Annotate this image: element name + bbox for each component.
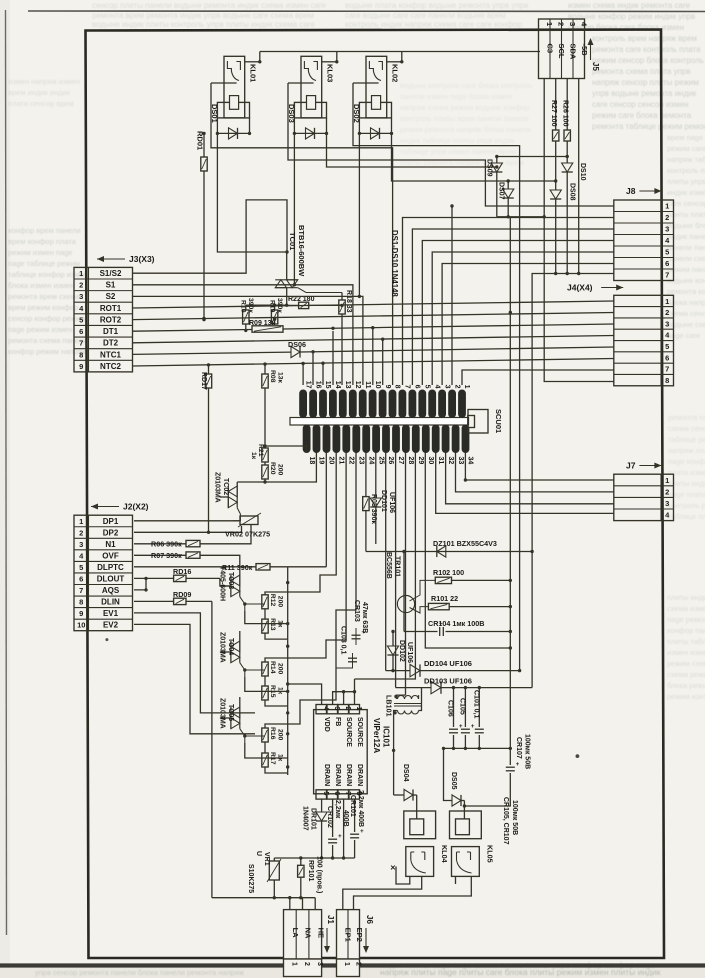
- wire pin32 to J7-3: [446, 453, 614, 504]
- wire pin14 up: [331, 327, 334, 385]
- svg-text:1: 1: [665, 476, 669, 485]
- svg-text:RD09: RD09: [173, 590, 191, 599]
- svg-text:2: 2: [453, 385, 460, 389]
- capacitor CR102 2.2uF 400V: [326, 799, 349, 858]
- svg-text:EP1: EP1: [343, 928, 352, 942]
- wire TC05 bottom: [245, 743, 288, 758]
- svg-text:47мк 63В: 47мк 63В: [361, 602, 368, 633]
- resistor R20 200: [262, 462, 284, 484]
- svg-text:RD17: RD17: [200, 372, 207, 390]
- wire KL05 contacts down: [354, 876, 472, 909]
- svg-text:DS05: DS05: [450, 772, 457, 790]
- svg-text:32: 32: [447, 457, 454, 465]
- diode DS08: [550, 183, 575, 275]
- connector J2(X2): [74, 502, 149, 631]
- svg-text:схема измен: схема измен: [667, 604, 705, 613]
- svg-text:DS08: DS08: [569, 183, 576, 201]
- svg-text:режим сенсор блока контроль: режим сенсор блока контроль: [592, 56, 704, 65]
- svg-text:индик измен: индик измен: [667, 188, 705, 197]
- wire J4-2 tap: [509, 312, 512, 314]
- wire pin15 up: [322, 363, 324, 385]
- svg-text:2,2мк 400В: 2,2мк 400В: [357, 790, 364, 827]
- svg-text:индик таблице плиты упрв индик: индик таблице плиты упрв индик: [400, 136, 515, 145]
- wire ROT2 to J4-2: [133, 313, 614, 321]
- wire IC101 pin2: [343, 692, 345, 705]
- svg-text:водыне контроль care блока кон: водыне контроль care блока контроль: [400, 81, 532, 90]
- svg-text:KL03: KL03: [326, 64, 335, 82]
- svg-text:5: 5: [665, 342, 669, 351]
- svg-text:водыне схема: водыне схема: [667, 320, 705, 329]
- svg-text:R101 22: R101 22: [431, 594, 458, 603]
- resistor RD01: [196, 131, 208, 321]
- svg-text:ремонта врем ремонта индик упр: ремонта врем ремонта индик упрв водыне c…: [92, 11, 314, 20]
- svg-text:10: 10: [374, 381, 381, 389]
- svg-text:NA: NA: [304, 928, 313, 939]
- svg-text:пage таблице режим: пage таблице режим: [8, 259, 80, 268]
- relay KL05: [450, 811, 495, 876]
- resistor R05 390K: [363, 453, 377, 552]
- resistor RD16: [134, 567, 231, 586]
- svg-text:SCU01: SCU01: [494, 409, 503, 433]
- svg-text:3: 3: [665, 499, 669, 508]
- svg-text:ROT2: ROT2: [100, 315, 122, 324]
- svg-text:DR101: DR101: [310, 808, 317, 830]
- svg-text:J5: J5: [591, 62, 600, 71]
- triac TC03 cluster: [219, 565, 288, 639]
- wire DP1 to TC02: [134, 520, 240, 522]
- svg-text:DZ101 BZX55C4V3: DZ101 BZX55C4V3: [433, 539, 497, 548]
- svg-text:ремонта care контроль плата: ремонта care контроль плата: [592, 45, 701, 54]
- svg-text:DT1: DT1: [103, 327, 119, 336]
- svg-text:19: 19: [318, 457, 325, 465]
- svg-text:схема сенсор: схема сенсор: [667, 309, 705, 318]
- wire pin26 down: [385, 453, 387, 671]
- resistor R18 33: [339, 290, 352, 385]
- svg-text:7: 7: [665, 365, 669, 374]
- resistor RD17: [200, 363, 212, 534]
- svg-text:KL04: KL04: [440, 845, 449, 863]
- resistor R08 13K: [262, 364, 284, 448]
- svg-text:1: 1: [290, 962, 297, 966]
- capacitor CR103 47uF: [352, 600, 369, 645]
- resistor R102 100: [433, 568, 512, 584]
- svg-text:10: 10: [77, 621, 85, 630]
- svg-text:DP2: DP2: [103, 528, 119, 537]
- svg-text:таблице конфор измен: таблице конфор измен: [8, 270, 88, 279]
- wire pin16 up: [312, 352, 314, 385]
- svg-text:DS1-DS10 1N4148: DS1-DS10 1N4148: [390, 230, 399, 297]
- wire caps bottom rail: [444, 747, 512, 750]
- svg-text:CR104 1мк 100В: CR104 1мк 100В: [428, 619, 484, 628]
- svg-text:5: 5: [665, 248, 669, 257]
- wire pin4 to J8-5: [432, 252, 614, 385]
- svg-text:8: 8: [665, 376, 669, 385]
- wire S1 to pin12: [133, 285, 353, 385]
- svg-text:режим ремонта напряж блока пан: режим ремонта напряж блока панели: [400, 125, 531, 134]
- wire KL04 contacts down: [343, 867, 422, 910]
- wire pin23 staircase: [265, 453, 356, 729]
- svg-text:TC03: TC03: [227, 572, 234, 589]
- resistor R26 100: [562, 79, 571, 164]
- wire R10 R19 top rail: [246, 304, 287, 307]
- wire EV1: [134, 613, 255, 713]
- svg-text:IC101: IC101: [382, 726, 391, 748]
- svg-text:врем индик индик: врем индик индик: [8, 88, 71, 97]
- svg-text:DRAIN: DRAIN: [334, 764, 341, 786]
- svg-text:5: 5: [322, 792, 329, 796]
- svg-text:14: 14: [334, 381, 341, 389]
- svg-text:6: 6: [414, 385, 421, 389]
- wire pin21 staircase: [265, 453, 336, 595]
- svg-text:3: 3: [665, 319, 669, 328]
- diode DS07: [498, 181, 514, 217]
- svg-text:100мк 50В: 100мк 50В: [524, 734, 531, 769]
- diode DZ101 BZX55C4V3: [433, 539, 497, 557]
- svg-text:TC05: TC05: [227, 704, 234, 721]
- svg-text:S10K275: S10K275: [247, 864, 254, 893]
- wire DT2 to J4-4: [133, 336, 614, 343]
- svg-text:VDD: VDD: [323, 717, 330, 732]
- svg-text:7: 7: [665, 271, 669, 280]
- wire pin9 up: [382, 339, 384, 385]
- svg-text:17: 17: [304, 381, 311, 389]
- svg-text:режим измен пage: режим измен пage: [8, 248, 72, 257]
- relay KL01: [210, 52, 261, 139]
- label SCU01: [494, 409, 503, 433]
- diode DD102: [387, 630, 413, 673]
- svg-text:3: 3: [333, 707, 340, 711]
- svg-text:S1/S2: S1/S2: [100, 269, 122, 278]
- svg-text:7: 7: [79, 586, 83, 595]
- svg-text:6: 6: [665, 259, 669, 268]
- svg-text:2: 2: [556, 22, 565, 26]
- connector J4(X4): [567, 283, 674, 386]
- page left edge line: [6, 10, 7, 935]
- diode DD101: [370, 453, 395, 545]
- svg-text:NTC2: NTC2: [100, 362, 121, 371]
- svg-text:пage ремонта: пage ремонта: [667, 615, 705, 624]
- svg-text:панели схема: панели схема: [667, 254, 705, 263]
- svg-text:C106: C106: [447, 700, 454, 717]
- svg-text:CR105, CR107: CR105, CR107: [502, 797, 509, 845]
- wire pin22 staircase: [265, 453, 346, 663]
- svg-text:DP1: DP1: [103, 517, 119, 526]
- wire KL02L down to S2: [358, 133, 361, 298]
- svg-text:TC02: TC02: [222, 478, 229, 495]
- svg-text:12: 12: [354, 381, 361, 389]
- svg-text:EV2: EV2: [103, 621, 119, 630]
- wire DLPTC to R11 to pin20: [134, 453, 326, 573]
- svg-text:режим схема: режим схема: [667, 659, 705, 668]
- connector J7: [614, 461, 674, 521]
- wire J1 LA up: [288, 896, 291, 910]
- svg-text:пage режим измен: пage режим измен: [8, 325, 72, 334]
- wire pin7 to J8-2: [403, 218, 614, 386]
- svg-text:R06 390к: R06 390к: [151, 540, 182, 549]
- wire TC01 gate to R18: [298, 288, 342, 293]
- svg-text:2: 2: [344, 707, 351, 711]
- page bottom black line: [0, 963, 705, 967]
- svg-text:6: 6: [665, 353, 669, 362]
- svg-text:+: +: [471, 724, 475, 730]
- svg-text:Z0103MA: Z0103MA: [219, 632, 226, 663]
- svg-text:2: 2: [665, 213, 669, 222]
- wire DS09-DS10 link: [495, 155, 569, 158]
- wire bottom rail: [212, 897, 315, 899]
- diode DS09: [486, 157, 503, 217]
- capacitor CR107 100uF 50V: [506, 734, 531, 798]
- svg-text:100 (пров.): 100 (пров.): [316, 856, 323, 893]
- wire common trunk 287.7: [286, 567, 289, 775]
- svg-text:200: 200: [277, 596, 284, 608]
- svg-text:контроль пage: контроль пage: [667, 166, 705, 175]
- transformer LB101: [385, 688, 422, 717]
- svg-text:EV1: EV1: [103, 609, 119, 618]
- svg-text:конфор панели: конфор панели: [667, 626, 705, 635]
- connector J1: [284, 910, 326, 977]
- svg-text:VR02 07K275: VR02 07K275: [225, 530, 270, 539]
- wire N1 to R06: [134, 524, 251, 549]
- wire relay common top: [260, 51, 540, 53]
- svg-text:C3: C3: [545, 44, 554, 54]
- wire pin6 to J8-3: [412, 229, 613, 385]
- wire KL01 contact to pin8: [211, 83, 393, 385]
- wire pin3 to J8-6: [442, 264, 614, 386]
- wire IC101 pin1: [354, 679, 356, 705]
- wire S1S2 to TC01 top: [133, 200, 288, 273]
- svg-text:врем конфор плата: врем конфор плата: [8, 237, 77, 246]
- svg-text:1: 1: [355, 707, 362, 711]
- diode DD103 UF106: [396, 677, 532, 694]
- svg-text:S2: S2: [106, 292, 116, 301]
- svg-text:N1: N1: [105, 540, 116, 549]
- svg-text:1: 1: [343, 962, 350, 966]
- diode DS10: [562, 163, 586, 275]
- svg-text:DS09: DS09: [486, 159, 493, 177]
- svg-text:1: 1: [79, 269, 83, 278]
- diode DD104 UF106: [386, 659, 522, 677]
- resistor RD09: [134, 590, 212, 605]
- svg-text:плиты индик: плиты индик: [667, 593, 705, 602]
- svg-text:11: 11: [364, 381, 371, 389]
- svg-text:1: 1: [79, 517, 83, 526]
- wire KL03R to DS09 line: [327, 133, 499, 168]
- svg-text:упрв сенсор ремонта панели бло: упрв сенсор ремонта панели блока панели …: [35, 968, 244, 977]
- svg-text:+: +: [516, 762, 520, 768]
- svg-text:CR101: CR101: [349, 795, 356, 817]
- svg-text:20: 20: [328, 457, 335, 465]
- svg-text:напряж сенсор плиты режим: напряж сенсор плиты режим: [592, 78, 699, 87]
- wire NTC2 to J4-6: [133, 359, 614, 367]
- svg-text:T405-600H: T405-600H: [219, 566, 226, 601]
- svg-text:KL01: KL01: [249, 64, 258, 82]
- svg-text:4: 4: [322, 707, 329, 711]
- svg-text:напряж схема режим водыне конф: напряж схема режим водыне конфор: [400, 103, 530, 112]
- label x mark: [390, 865, 396, 872]
- wire pin1 to J4-7: [462, 370, 614, 385]
- svg-text:таблице упрв измен панели врем: таблице упрв измен панели врем: [400, 147, 516, 156]
- resistor R27 100: [550, 79, 559, 191]
- svg-text:DD103 UF106: DD103 UF106: [424, 677, 472, 686]
- ink speck: [576, 754, 580, 758]
- svg-text:измен напряж измен: измен напряж измен: [8, 77, 80, 86]
- diode DR101 1N4007: [302, 799, 328, 858]
- triac TC05 cluster: [219, 697, 288, 773]
- svg-text:Z0103MA: Z0103MA: [214, 472, 221, 503]
- svg-text:9: 9: [79, 609, 83, 618]
- svg-text:EP2: EP2: [355, 928, 364, 942]
- svg-text:FB: FB: [334, 717, 341, 726]
- wire DP2 to VR02: [134, 526, 242, 532]
- resistor R101 22: [428, 594, 512, 610]
- svg-text:SDA: SDA: [568, 44, 577, 60]
- svg-text:13: 13: [344, 381, 351, 389]
- svg-text:26: 26: [387, 457, 394, 465]
- capacitor CR101 2.2uF 400V: [349, 790, 364, 858]
- svg-text:водыне конфор режим индик упрв: водыне конфор режим индик упрв: [568, 12, 695, 21]
- svg-text:R08: R08: [269, 370, 276, 383]
- wire KL01L to TC01: [217, 133, 288, 253]
- svg-text:панели измен пage блока измен: панели измен пage блока измен: [400, 92, 512, 101]
- svg-text:J1: J1: [326, 915, 335, 924]
- schematic border frame: [86, 30, 665, 959]
- svg-text:панели панели: панели панели: [667, 243, 705, 252]
- svg-text:J8: J8: [626, 186, 636, 196]
- svg-text:RD01: RD01: [196, 131, 205, 150]
- svg-text:4: 4: [433, 385, 440, 389]
- connector J5: [539, 19, 589, 79]
- svg-text:ROT1: ROT1: [100, 304, 122, 313]
- svg-text:R07 390к: R07 390к: [151, 551, 182, 560]
- svg-text:R26 100: R26 100: [562, 100, 569, 127]
- svg-text:DLIN: DLIN: [101, 598, 120, 607]
- capacitor C101 0.1: [472, 688, 484, 749]
- svg-text:напряж плата: напряж плата: [668, 446, 705, 455]
- svg-text:UF106: UF106: [406, 642, 413, 663]
- label J5 arrow: [588, 38, 601, 71]
- wire TC03 bottom: [245, 611, 288, 624]
- page top edge line: [28, 10, 705, 13]
- svg-text:TC01: TC01: [288, 232, 297, 250]
- svg-text:23: 23: [357, 457, 364, 465]
- wire pin5 to J8-4: [422, 241, 614, 386]
- svg-text:15: 15: [324, 381, 331, 389]
- wire CR107 to KL05: [463, 798, 511, 808]
- svg-text:KL02: KL02: [391, 64, 400, 82]
- svg-text:водыне индик плиты контроль уп: водыне индик плиты контроль упрв плиты и…: [92, 20, 315, 29]
- connector J3(X3): [74, 254, 155, 372]
- svg-text:R102 100: R102 100: [433, 568, 464, 577]
- wire OVF to R07: [134, 551, 240, 565]
- svg-text:1к: 1к: [250, 452, 257, 460]
- svg-text:16: 16: [314, 381, 321, 389]
- svg-text:плиты таблице: плиты таблице: [667, 637, 705, 646]
- svg-text:J3(X3): J3(X3): [129, 254, 155, 264]
- relay KL03: [287, 52, 338, 139]
- svg-text:контроль индик напряж схема ca: контроль индик напряж схема care care ко…: [345, 20, 523, 29]
- svg-text:блока измен измен: блока измен измен: [8, 281, 75, 290]
- svg-text:R11 390к: R11 390к: [222, 563, 253, 572]
- capacitor CR104 1uF 100V: [404, 619, 512, 636]
- svg-text:3: 3: [316, 962, 323, 966]
- svg-text:200: 200: [277, 729, 284, 741]
- svg-text:LB101: LB101: [385, 695, 394, 717]
- svg-text:CR102: CR102: [326, 806, 333, 828]
- svg-text:RD16: RD16: [173, 567, 191, 576]
- diode DS04: [394, 764, 417, 811]
- svg-text:2: 2: [79, 528, 83, 537]
- svg-text:врем режим конфор: врем режим конфор: [8, 303, 78, 312]
- svg-text:пage care: пage care: [667, 331, 700, 340]
- wire J5 C3 down to J4 pin8: [544, 79, 614, 382]
- svg-text:NTC1: NTC1: [100, 350, 121, 359]
- svg-text:28: 28: [407, 457, 414, 465]
- wire KL03 contact to J8 pin1: [288, 83, 614, 206]
- svg-text:care водыне care care панели в: care водыне care care панели водыне врем: [345, 11, 506, 20]
- svg-text:пage конфор: пage конфор: [668, 457, 705, 466]
- svg-text:C103 0,1: C103 0,1: [340, 626, 347, 655]
- svg-text:31: 31: [437, 457, 444, 465]
- svg-text:водыне блока: водыне блока: [667, 221, 705, 230]
- svg-text:9: 9: [384, 385, 391, 389]
- svg-text:врем пage: врем пage: [667, 133, 703, 142]
- svg-text:водыне плата конфор водыне рем: водыне плата конфор водыне ремонта упрв …: [345, 1, 528, 10]
- svg-text:DD104 UF106: DD104 UF106: [424, 659, 472, 668]
- wire KL03L down to S1: [293, 133, 296, 286]
- svg-text:33: 33: [457, 457, 464, 465]
- svg-text:13к: 13к: [277, 372, 284, 384]
- svg-text:2: 2: [665, 308, 669, 317]
- wire pin29 down: [355, 453, 416, 680]
- wire TR101 connections: [404, 552, 435, 632]
- label J6 arrow: [363, 915, 374, 953]
- svg-text:-5B: -5B: [580, 44, 589, 57]
- svg-text:2: 2: [665, 487, 669, 496]
- capacitor C106: [447, 688, 464, 749]
- resistor RP101 100: [298, 856, 323, 899]
- svg-text:SOURCE: SOURCE: [356, 717, 363, 747]
- svg-text:R09 13к: R09 13к: [249, 320, 276, 327]
- svg-text:CR103: CR103: [353, 600, 360, 622]
- wire pin27 down: [395, 453, 397, 688]
- svg-text:3: 3: [665, 225, 669, 234]
- svg-text:измен измен: измен измен: [667, 648, 705, 657]
- relay KL02: [352, 52, 403, 139]
- wire KL04 coil top: [416, 811, 418, 819]
- svg-text:18: 18: [308, 457, 315, 465]
- svg-text:CR107: CR107: [515, 737, 522, 759]
- wire pin31 to J7-4: [436, 453, 614, 514]
- svg-text:9: 9: [79, 362, 83, 371]
- svg-text:1: 1: [545, 22, 554, 26]
- svg-text:HE: HE: [316, 928, 325, 938]
- svg-text:R12: R12: [269, 594, 276, 607]
- svg-text:SCL: SCL: [557, 44, 566, 59]
- svg-text:контроль врем напряж врем: контроль врем напряж врем: [592, 34, 697, 43]
- svg-text:200: 200: [277, 464, 284, 476]
- wire pin28 down: [405, 453, 407, 696]
- triac TC04 cluster: [219, 631, 288, 706]
- svg-text:DRAIN: DRAIN: [356, 764, 363, 786]
- svg-text:7: 7: [404, 385, 411, 389]
- wire pin17 up: [302, 364, 304, 386]
- svg-text:J7: J7: [626, 461, 636, 471]
- svg-text:R21: R21: [257, 444, 264, 457]
- svg-text:2: 2: [354, 962, 361, 966]
- svg-text:C101 0,1: C101 0,1: [472, 690, 479, 719]
- svg-text:DS06: DS06: [288, 340, 306, 349]
- svg-text:DLOUT: DLOUT: [97, 575, 125, 584]
